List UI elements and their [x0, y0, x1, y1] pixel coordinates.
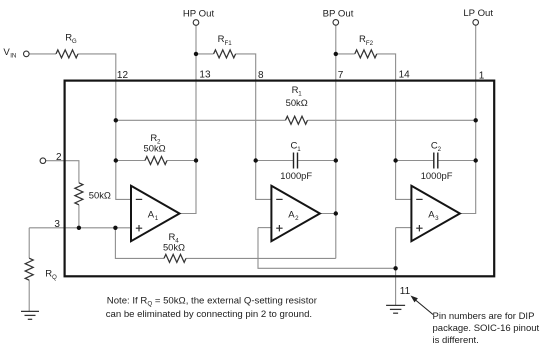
- svg-text:2: 2: [295, 215, 299, 222]
- svg-text:HP Out: HP Out: [183, 8, 215, 19]
- svg-text:G: G: [72, 38, 77, 45]
- svg-text:50kΩ: 50kΩ: [89, 190, 111, 201]
- svg-text:2: 2: [56, 152, 62, 163]
- svg-text:Note: If RQ = 50kΩ, the extern: Note: If RQ = 50kΩ, the external Q-setti…: [107, 296, 318, 308]
- svg-text:12: 12: [117, 70, 129, 81]
- svg-text:2: 2: [438, 146, 442, 153]
- svg-text:package. SOIC-16 pinout: package. SOIC-16 pinout: [433, 323, 540, 334]
- svg-text:50kΩ: 50kΩ: [144, 142, 166, 153]
- svg-text:11: 11: [400, 286, 411, 297]
- svg-text:1: 1: [479, 70, 485, 81]
- svg-text:BP Out: BP Out: [323, 8, 354, 19]
- svg-text:1000pF: 1000pF: [280, 170, 312, 181]
- svg-text:3: 3: [54, 219, 60, 230]
- svg-text:Q: Q: [52, 274, 57, 281]
- svg-text:7: 7: [338, 70, 344, 81]
- svg-text:can be eliminated by connectin: can be eliminated by connecting pin 2 to…: [106, 309, 312, 320]
- svg-text:3: 3: [435, 215, 439, 222]
- svg-text:is different.: is different.: [433, 335, 479, 346]
- svg-text:14: 14: [399, 70, 411, 81]
- svg-text:8: 8: [258, 70, 264, 81]
- svg-text:F1: F1: [225, 40, 233, 47]
- svg-text:50kΩ: 50kΩ: [286, 97, 308, 108]
- svg-text:1000pF: 1000pF: [421, 170, 453, 181]
- svg-text:1: 1: [155, 215, 159, 222]
- svg-text:1: 1: [297, 146, 301, 153]
- svg-text:13: 13: [199, 70, 211, 81]
- svg-text:LP Out: LP Out: [463, 8, 493, 19]
- svg-text:Pin numbers are for DIP: Pin numbers are for DIP: [433, 311, 535, 322]
- svg-text:IN: IN: [10, 52, 16, 59]
- svg-text:F2: F2: [366, 40, 374, 47]
- svg-text:50kΩ: 50kΩ: [163, 241, 185, 252]
